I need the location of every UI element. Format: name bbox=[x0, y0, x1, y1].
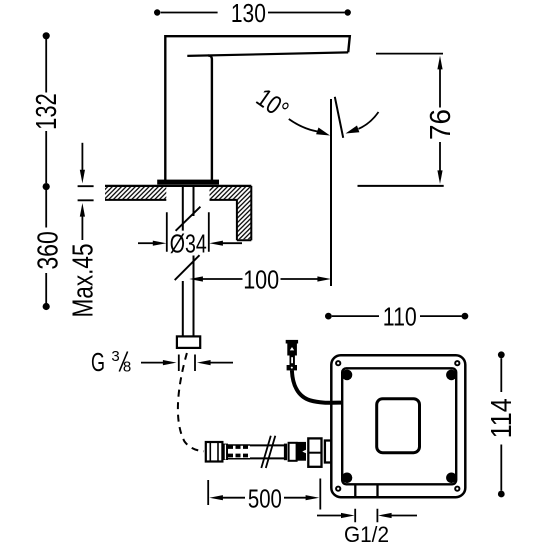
svg-text:G: G bbox=[91, 347, 105, 377]
svg-text:G1/2: G1/2 bbox=[344, 522, 389, 547]
svg-text:360: 360 bbox=[33, 231, 65, 270]
svg-text:110: 110 bbox=[383, 302, 417, 332]
svg-text:3: 3 bbox=[111, 348, 119, 365]
svg-text:132: 132 bbox=[31, 93, 63, 130]
svg-text:130: 130 bbox=[231, 0, 266, 28]
svg-text:100: 100 bbox=[243, 264, 279, 294]
svg-text:8: 8 bbox=[123, 359, 131, 376]
svg-text:Ø34: Ø34 bbox=[170, 228, 207, 258]
svg-text:76: 76 bbox=[425, 109, 457, 140]
svg-text:Max.45: Max.45 bbox=[68, 244, 100, 318]
svg-text:114: 114 bbox=[486, 398, 518, 438]
svg-text:500: 500 bbox=[248, 484, 282, 514]
